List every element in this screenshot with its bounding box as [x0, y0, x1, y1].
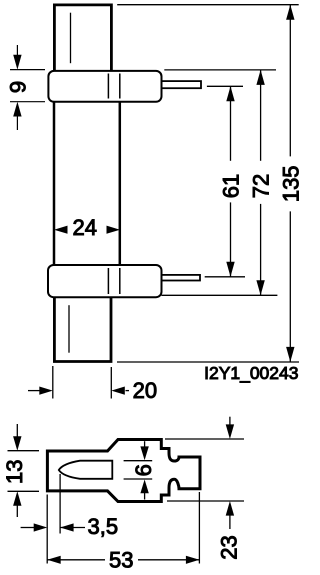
svg-text:23: 23	[217, 535, 242, 559]
svg-text:24: 24	[73, 215, 97, 240]
svg-text:53: 53	[109, 548, 133, 573]
svg-text:3,5: 3,5	[88, 514, 119, 539]
svg-text:61: 61	[219, 174, 244, 198]
svg-text:9: 9	[5, 81, 30, 93]
svg-text:I2Y1_00243: I2Y1_00243	[204, 363, 298, 384]
svg-text:72: 72	[249, 174, 274, 198]
svg-text:20: 20	[133, 378, 157, 403]
svg-text:13: 13	[2, 460, 27, 484]
svg-text:135: 135	[278, 165, 303, 202]
svg-text:6: 6	[131, 464, 156, 476]
